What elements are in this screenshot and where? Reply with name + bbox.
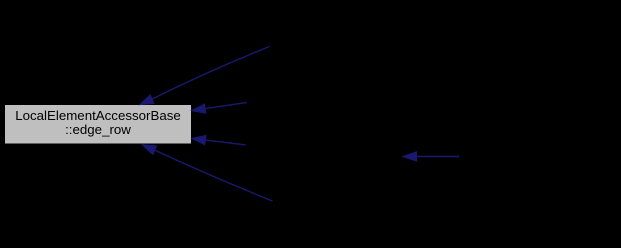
hidden node caller4 (bottom) [273, 185, 433, 217]
edge e4: bottom caller -> edge_row [142, 145, 272, 201]
node edge_row (LocalElementAccessorBase::edge_row, highlighted) [5, 105, 192, 145]
edge e2: caller2 -> edge_row [192, 102, 247, 113]
svg-text:LocalElementAccessorBase: LocalElementAccessorBase [15, 108, 181, 123]
edge e5: right caller -> caller3 [403, 152, 459, 161]
hidden node caller5 (far right) [459, 141, 614, 173]
edge e1: top caller -> edge_row [140, 47, 270, 105]
hidden node caller1 (top) [270, 30, 430, 62]
hidden node caller3 [246, 129, 404, 161]
hidden node caller2 [247, 86, 407, 118]
svg-text:::edge_row: ::edge_row [65, 122, 131, 137]
edge e3: caller3 -> edge_row [192, 135, 246, 145]
